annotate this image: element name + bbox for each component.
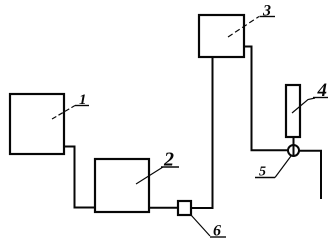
underline label 6 [210,236,226,238]
wire box3 right to valve5 left [244,47,288,151]
svg-text:5: 5 [259,165,266,180]
wire box4 bottom through valve5 [293,137,295,156]
underline label 1 [75,105,89,107]
underline label 5 [255,177,275,179]
leader line label 1 [52,106,75,120]
valve 5 circle [288,145,299,156]
leader line label 5 [275,156,291,178]
leader line label 2 [136,167,163,184]
leader line label 3 [228,17,259,38]
underline label 2 [161,166,179,168]
wire device6 to box3 bottom [191,57,213,208]
leader line label 6 [191,215,210,236]
leader line label 4 [292,98,315,113]
svg-text:4: 4 [317,80,328,101]
wire valve5 right then down [299,151,321,199]
block 4 [286,85,300,137]
svg-text:3: 3 [262,3,271,20]
svg-text:6: 6 [213,223,221,240]
wire box1 to box2 [64,147,95,208]
svg-text:1: 1 [79,92,87,108]
underline label 3 [260,16,276,18]
device 6 box [178,201,191,215]
block 3 [199,15,244,57]
wire box2 to device6 [149,207,178,209]
block 2 [95,159,149,212]
underline label 4 [313,97,328,99]
svg-text:2: 2 [163,149,174,171]
block 1 [10,94,64,154]
